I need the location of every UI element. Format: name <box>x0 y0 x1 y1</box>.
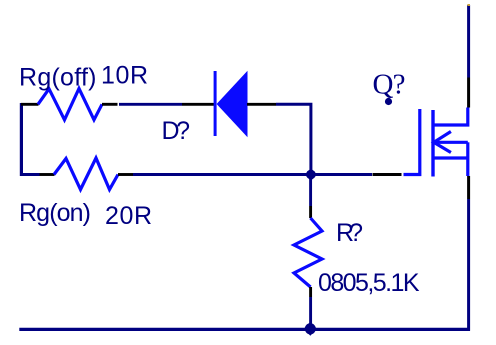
wire: black segment above R3 <box>309 206 312 218</box>
node: rail top endpoint marker <box>467 4 470 6</box>
wire: black segment before gate <box>373 173 402 176</box>
transistor Q1 source/body bar <box>466 142 469 176</box>
wire: navy corner from diode to junction <box>276 104 311 174</box>
wire: top branch left stub <box>21 103 39 106</box>
wire: black segment below R3 <box>309 287 312 297</box>
transistor Q1 body arrow <box>434 132 451 153</box>
svg-text:Rg(on): Rg(on) <box>19 199 91 227</box>
svg-text:Rg(off): Rg(off) <box>19 64 97 92</box>
wire: black segment after diode <box>247 103 276 106</box>
resistor R3 <box>294 218 322 287</box>
wire: right rail navy bottom <box>467 199 470 331</box>
wire: black segment after Rg(on) <box>118 173 133 176</box>
wire: black segment at diode anode side <box>182 103 214 106</box>
wire: right rail navy top <box>467 5 470 78</box>
svg-text:Q?: Q? <box>373 69 406 101</box>
transistor Q1 gate lead and gate bar <box>404 109 420 175</box>
wire: right rail black lower segment <box>467 176 470 199</box>
node: Q1 origin dot <box>385 98 392 105</box>
wire: bottom branch navy left stub <box>20 173 40 176</box>
svg-text:10R: 10R <box>101 62 148 90</box>
resistor R1 Rg(off) <box>38 89 102 120</box>
svg-text:20R: 20R <box>105 202 152 230</box>
transistor Q1 body stub <box>434 141 468 144</box>
transistor Q1 source stub <box>434 156 468 159</box>
wire: black segment after Rg(off) <box>102 103 118 106</box>
wire: bottom rail <box>19 328 470 331</box>
transistor Q1 drain stub <box>434 108 468 126</box>
node: junction dot at bottom rail <box>304 322 317 336</box>
wire: navy segment junction to R3 <box>309 175 312 207</box>
wire: right rail black upper segment <box>467 78 470 108</box>
node: junction dot at gate net <box>305 168 317 180</box>
wire: navy segment to diode <box>119 103 182 106</box>
svg-text:D?: D? <box>162 117 191 145</box>
diode D1 triangle <box>217 71 248 137</box>
wire: navy segment R3 to bottom rail <box>309 297 312 329</box>
svg-text:R?: R? <box>336 219 363 247</box>
transistor Q1 channel bar <box>431 110 434 177</box>
resistor R2 Rg(on) <box>54 158 118 190</box>
wire: bottom branch black stub <box>40 173 55 176</box>
diode D1 cathode bar <box>214 71 217 136</box>
wire: left vertical bus <box>20 103 23 176</box>
svg-text:0805,5.1K: 0805,5.1K <box>318 269 420 297</box>
wire: navy segment to junction and onward <box>133 173 372 176</box>
